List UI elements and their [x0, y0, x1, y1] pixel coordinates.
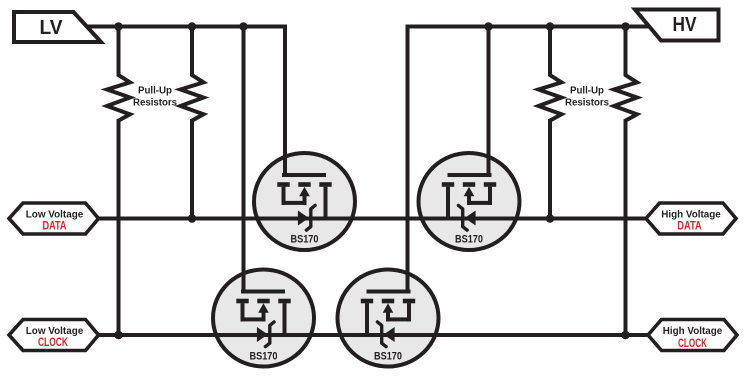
transistor Q2 internals (mirrored) [442, 173, 496, 230]
resistor R4 (pull-up, HV CLOCK) [614, 25, 637, 336]
wire: Q2 gate lead from HV rail [487, 25, 491, 178]
junction dot (HV rail / Q2 gate) [484, 22, 493, 31]
wire: LV supply rail with bend down to Q1 gate [86, 27, 285, 178]
svg-text:Low Voltage: Low Voltage [26, 326, 84, 337]
node flag: Low Voltage DATA [9, 203, 99, 234]
svg-text:BS170: BS170 [291, 234, 319, 246]
svg-text:High Voltage: High Voltage [661, 210, 721, 221]
junction dot (DATA / R3) [546, 214, 555, 223]
wire: DATA line [95, 217, 648, 221]
svg-text:DATA: DATA [43, 221, 67, 233]
resistor R3 (pull-up, HV DATA) [539, 25, 562, 219]
node flag: Low Voltage CLOCK [9, 320, 99, 351]
junction dot (DATA / R2) [188, 214, 197, 223]
svg-text:LV: LV [40, 17, 64, 39]
transistor Q3 circle (low-side CLOCK BS170) [213, 270, 314, 367]
svg-text:High Voltage: High Voltage [663, 326, 723, 337]
svg-text:CLOCK: CLOCK [678, 338, 707, 350]
junction dot (LV rail / R2) [188, 22, 197, 31]
svg-text:Resistors: Resistors [565, 98, 609, 109]
LV supply flag [14, 12, 101, 42]
HV supply flag [635, 10, 719, 41]
junction dot (HV rail / R3) [546, 22, 555, 31]
transistor Q4 internals (mirrored) [361, 290, 415, 347]
resistor R1 (pull-up, LV CLOCK) [107, 25, 130, 336]
svg-text:CLOCK: CLOCK [38, 337, 69, 349]
resistor R2 (pull-up, LV DATA) [181, 25, 204, 219]
transistor Q4 circle (high-side CLOCK BS170) [338, 270, 439, 367]
svg-text:DATA: DATA [677, 221, 702, 233]
transistor Q1 internals [277, 173, 331, 230]
node flag: High Voltage CLOCK [648, 320, 737, 351]
transistor Q1 circle (low-side DATA BS170) [254, 153, 355, 250]
junction dot (CLOCK / R1) [114, 331, 123, 340]
junction dot (LV rail / R1) [114, 22, 123, 31]
svg-text:Resistors: Resistors [133, 98, 177, 109]
wire: HV supply rail with bend down to Q4 gate [408, 27, 651, 294]
junction dot (CLOCK / R4) [621, 331, 630, 340]
junction dot (HV rail / R4) [621, 22, 630, 31]
svg-text:BS170: BS170 [374, 351, 402, 363]
svg-text:BS170: BS170 [455, 234, 483, 246]
svg-text:BS170: BS170 [250, 351, 278, 363]
wire: CLOCK line [95, 333, 650, 337]
wire: Q3 gate lead from LV rail [242, 25, 246, 294]
svg-text:Low Voltage: Low Voltage [26, 210, 84, 221]
svg-text:HV: HV [673, 14, 698, 36]
transistor Q2 circle (high-side DATA BS170) [419, 153, 520, 250]
junction dot (LV rail / Q3 gate) [239, 22, 248, 31]
svg-text:Pull-Up: Pull-Up [138, 86, 172, 97]
svg-text:Pull-Up: Pull-Up [570, 86, 604, 97]
node flag: High Voltage DATA [646, 203, 736, 234]
transistor Q3 internals [236, 290, 290, 347]
